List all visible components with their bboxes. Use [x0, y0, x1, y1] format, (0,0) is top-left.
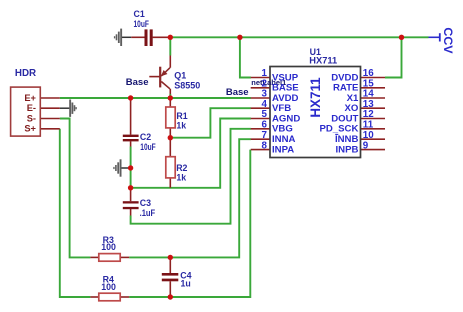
svg-text:Base: Base	[226, 87, 249, 98]
svg-text:HDR: HDR	[15, 68, 36, 79]
svg-text:INPB: INPB	[335, 144, 358, 155]
svg-text:8: 8	[262, 140, 268, 151]
svg-text:HX711: HX711	[308, 77, 323, 118]
svg-text:INPA: INPA	[272, 144, 294, 155]
svg-text:7: 7	[262, 130, 268, 141]
svg-text:1k: 1k	[176, 173, 186, 183]
svg-text:10uF: 10uF	[140, 142, 156, 152]
svg-text:C2: C2	[140, 132, 151, 142]
svg-text:INNB: INNB	[335, 134, 359, 145]
svg-text:S8550: S8550	[174, 81, 200, 91]
svg-text:R2: R2	[176, 163, 187, 173]
svg-text:E+: E+	[24, 93, 36, 103]
svg-text:1u: 1u	[181, 279, 191, 289]
svg-text:6: 6	[262, 120, 268, 131]
svg-text:100: 100	[101, 242, 116, 252]
svg-text:Base: Base	[126, 77, 149, 88]
svg-text:HX711: HX711	[309, 55, 337, 65]
svg-text:100: 100	[101, 282, 116, 292]
svg-text:E-: E-	[27, 103, 36, 113]
svg-text:Q1: Q1	[174, 71, 186, 81]
svg-text:11: 11	[363, 120, 374, 131]
svg-text:VBG: VBG	[272, 124, 293, 135]
svg-text:10: 10	[363, 130, 374, 141]
svg-text:C3: C3	[140, 198, 151, 208]
svg-text:1k: 1k	[176, 120, 186, 130]
svg-text:10uF: 10uF	[134, 19, 150, 29]
svg-text:INNA: INNA	[272, 134, 296, 145]
svg-text:9: 9	[363, 140, 369, 151]
svg-text:S+: S+	[24, 124, 36, 134]
svg-text:PD_SCK: PD_SCK	[319, 124, 358, 135]
svg-text:CCV: CCV	[441, 27, 455, 54]
svg-text:C1: C1	[134, 9, 145, 19]
svg-text:.1uF: .1uF	[140, 208, 156, 218]
svg-text:S-: S-	[27, 113, 36, 123]
